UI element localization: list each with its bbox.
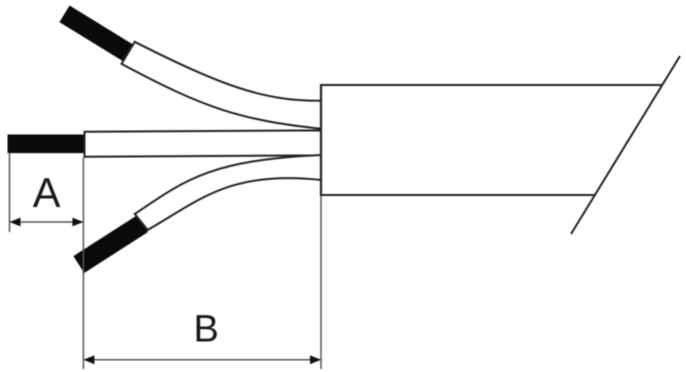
- dimension A arrowhead right: [72, 218, 83, 227]
- dimension B right extension line (below jacket corner): [320, 196, 322, 369]
- wire insulation middle (white tube with outline): [85, 130, 322, 156]
- dimension B arrowhead right: [310, 355, 321, 364]
- cable jacket body (white cover): [322, 86, 662, 194]
- cable jacket bottom edge: [321, 194, 594, 196]
- conductor tip bottom wire (black stripped end): [79, 224, 143, 265]
- dimension A arrow line: [11, 221, 82, 223]
- svg-text:B: B: [194, 309, 219, 351]
- dimension A right / B left shared extension line: [82, 158, 84, 370]
- wire insulation bottom (white tube with outline): [135, 155, 322, 230]
- svg-text:A: A: [33, 169, 61, 216]
- dimension B arrow line: [85, 359, 320, 361]
- cable jacket left edge: [320, 84, 322, 196]
- cable jacket diagonal break line: [571, 56, 680, 234]
- dimension A arrowhead left: [10, 218, 21, 227]
- conductor tip top wire (black stripped end): [65, 14, 131, 54]
- wire insulation top (white tube with outline): [122, 42, 322, 129]
- conductor tip middle wire (black stripped end): [8, 135, 85, 154]
- dimension B arrowhead left: [83, 355, 94, 364]
- cable jacket top edge: [321, 84, 662, 86]
- dimension A left extension line: [9, 153, 11, 233]
